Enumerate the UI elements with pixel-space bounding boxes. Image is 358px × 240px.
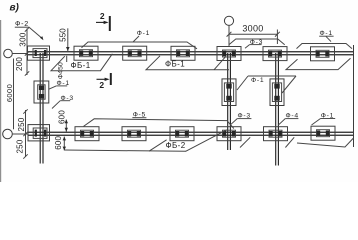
svg-text:550: 550 — [59, 28, 68, 42]
foundation bottom row 2 — [75, 127, 99, 141]
middle vertical beam right — [276, 53, 279, 166]
svg-text:250: 250 — [17, 117, 26, 131]
foundation F-1 top row 4 — [171, 46, 195, 60]
axis line bottom left — [12, 133, 28, 135]
axis circle left top — [4, 49, 13, 58]
svg-text:6000: 6000 — [5, 84, 14, 102]
svg-text:ФБ-1: ФБ-1 — [71, 61, 91, 70]
vertical foundation mid axis — [222, 79, 236, 106]
bottom right callout slants — [240, 137, 354, 147]
parallelogram right top under last foundation — [286, 58, 351, 69]
svg-text:ФБ-2: ФБ-2 — [166, 141, 186, 150]
svg-text:2: 2 — [100, 11, 105, 21]
parallelogram FB-1 first with label — [51, 54, 112, 71]
axis circle top middle — [224, 16, 233, 25]
foundation F-1 top row 3 — [123, 46, 147, 60]
scan edge artifact left border — [0, 20, 2, 182]
svg-text:3000: 3000 — [242, 24, 263, 34]
pile note F450 — [66, 56, 68, 62]
axis line top left — [12, 53, 28, 55]
svg-text:в): в) — [10, 3, 20, 14]
bottom beam double line — [28, 132, 354, 135]
foundation top row 6 — [263, 47, 287, 61]
svg-text:2: 2 — [99, 80, 104, 90]
left bottom dimension chain 250/250 — [23, 109, 27, 158]
parallelogram FB-2 with label — [64, 130, 227, 152]
foundation F-3 cross top at axis — [217, 47, 241, 61]
parallelogram FB-1 second with label — [146, 56, 229, 70]
svg-text:Ф-1: Ф-1 — [251, 77, 264, 84]
svg-text:Ф-2: Ф-2 — [15, 19, 29, 28]
foundation F-4 bottom row 6 — [264, 127, 288, 141]
svg-text:600: 600 — [54, 135, 63, 149]
axis circle left bottom — [3, 129, 13, 139]
foundation F-3 bottom at axis — [217, 127, 241, 141]
vertical foundation mid right — [270, 79, 284, 106]
svg-text:300: 300 — [19, 32, 28, 47]
svg-text:600: 600 — [58, 110, 67, 124]
left vertical beam — [40, 53, 43, 164]
top beam double line — [28, 52, 354, 55]
left dimension chain 300/200 — [25, 27, 29, 75]
svg-text:ФБ-1: ФБ-1 — [165, 59, 185, 68]
dimension 600 upper — [65, 120, 67, 132]
corner foundation bottom-left — [28, 125, 50, 141]
foundation F-5 bottom row 3 — [122, 127, 146, 141]
section mark 2 bottom — [97, 73, 112, 90]
foundation bottom row 4 — [170, 127, 194, 141]
svg-text:200: 200 — [15, 57, 24, 71]
axis line top middle vertical — [228, 25, 230, 47]
svg-text:250: 250 — [16, 139, 25, 153]
section mark 2 top — [96, 11, 111, 31]
dimension 600 lower — [63, 137, 65, 151]
corner foundation top-left — [28, 46, 50, 60]
middle vertical beam at axis 3000 left — [228, 53, 231, 150]
foundation F-1 top row 7 — [311, 47, 335, 61]
foundation F-1 bottom row 7 — [311, 126, 335, 140]
dimension 3000 — [227, 30, 280, 45]
right border line — [353, 45, 355, 147]
foundation F-1 top row 2 — [74, 46, 98, 60]
left dimension 6000 — [13, 59, 15, 130]
dimension 550 — [67, 28, 69, 51]
vertical foundation left mid — [34, 81, 49, 103]
